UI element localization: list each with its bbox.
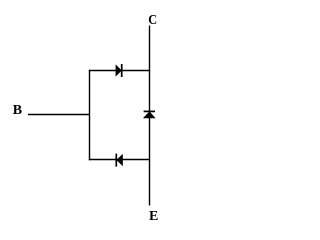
svg-text:B: B xyxy=(13,103,22,118)
diode D1 (base-collector, pointing right) xyxy=(116,64,122,77)
wire collector lead (C to top junction) xyxy=(149,26,151,72)
wire base bus vertical xyxy=(89,70,91,160)
svg-text:E: E xyxy=(149,209,158,224)
wire emitter lead (bottom junction to E) xyxy=(149,160,151,206)
diode D3 (collector-emitter, pointing up) xyxy=(143,111,156,118)
diode D2 (base-emitter, pointing left) xyxy=(116,154,123,167)
wire bottom branch horizontal xyxy=(89,159,150,161)
svg-text:C: C xyxy=(148,11,157,27)
wire base lead (B to bus T-junction) xyxy=(28,114,90,116)
wire right vertical segment through D3 (top junction to bottom junction) xyxy=(149,71,151,161)
wire top branch horizontal xyxy=(89,70,150,72)
